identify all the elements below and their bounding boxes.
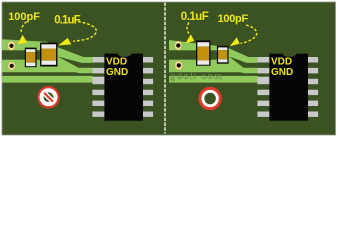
U2 body [269,54,308,121]
arrowhead for 100pF (right) [230,37,240,46]
svg-text:GND: GND [271,67,293,78]
arrowhead for 100pF (left) [17,35,27,45]
capacitor C3 0.1uF (right big) [196,40,211,65]
left band3 grey tip [92,77,104,83]
U2 right pins [308,57,318,63]
left bottom trace band3 [2,76,93,83]
capacitor C4 100pF (right small) [217,46,229,64]
left via pad P1 [7,41,15,50]
arrow curve from 0.1uF label (right) [187,23,189,34]
svg-text:0.1uF: 0.1uF [54,14,80,26]
arrow curve from 0.1uF label [73,22,96,42]
svg-text:100pF: 100pF [218,13,249,25]
U2 notch [283,50,297,56]
IC U1 (left) [92,50,153,120]
U1 notch [118,50,132,56]
svg-text:0.1uF: 0.1uF [181,11,209,23]
right band3 grey tip [257,77,269,83]
U1 right pins [143,57,153,63]
U1 body [104,54,143,121]
arrowhead for 0.1uF (left) [58,38,71,46]
capacitor C2 0.1uF (left big) [40,43,58,67]
left via pad P2 [8,61,16,70]
left ground pour with traces to IC [2,39,92,73]
left pour slot (dark gap between VDD and GND strips) [2,50,40,59]
svg-text:GND: GND [106,67,128,78]
IC U2 (right) [257,50,318,120]
prohibition symbol (left) [38,87,58,107]
svg-text:VDD: VDD [271,57,292,68]
svg-text:gdoli com: gdoli com [170,71,223,81]
svg-text:100pF: 100pF [8,11,40,23]
right via pad P3 [174,41,182,50]
right ground pour with traces to IC [169,40,257,73]
board panel background [2,2,336,135]
divider dashed line [164,3,166,134]
right via pad P4 [175,61,183,70]
capacitor C1 100pF (left small) [25,48,37,68]
U2 left pins [257,57,269,63]
right pour slot [169,50,217,59]
svg-text:VDD: VDD [106,57,127,68]
arrow curve from 100pF label [21,22,26,34]
OK circle symbol (right) [200,88,221,109]
arrowhead for 0.1uF (right) [186,34,195,43]
U1 left pins [92,57,104,63]
arrow curve from 100pF label (right) [241,25,257,43]
right bottom trace band3 [169,76,258,83]
